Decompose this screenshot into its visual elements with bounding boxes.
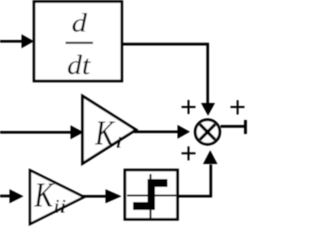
svg-text:dt: dt <box>67 49 91 80</box>
plus sign (derivative input, upper-left of junction) <box>182 100 196 114</box>
svg-text:i: i <box>116 135 123 152</box>
wire: d/dt output to summing junction <box>122 44 216 116</box>
svg-text:ii: ii <box>53 196 66 217</box>
wire: Ki output to summing junction <box>134 125 190 139</box>
plus sign (signum input, lower-left of junction) <box>182 146 196 160</box>
relay x-axis <box>127 194 176 196</box>
block U1 d/dt (derivative) <box>34 2 122 82</box>
plus sign (upper-right of junction) <box>231 100 245 114</box>
relay y-axis <box>149 174 151 218</box>
svg-text:d: d <box>72 8 88 38</box>
wire: input to Kii gain <box>0 189 24 203</box>
fraction bar <box>66 42 94 44</box>
wire: Kii output to relay block <box>83 189 122 203</box>
gain Kii (amplifier triangle) <box>30 170 84 224</box>
summing junction (multiplier circle with X) <box>195 120 220 145</box>
wire: input to Ki gain <box>0 125 84 139</box>
wire: input to d/dt block <box>0 34 34 48</box>
wire: summing junction output <box>221 125 245 128</box>
wire: relay output to summing junction <box>178 150 218 196</box>
relay step curve <box>133 179 168 210</box>
svg-text:K: K <box>94 114 115 153</box>
output terminal bar <box>244 120 247 134</box>
gain Ki (amplifier triangle) <box>83 96 137 164</box>
relay block (signum) <box>125 170 178 219</box>
svg-text:K: K <box>34 176 55 215</box>
